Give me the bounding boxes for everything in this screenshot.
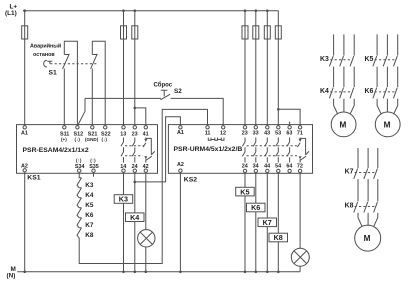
svg-text:M: M xyxy=(340,120,347,129)
svg-text:(↑): (↑) xyxy=(90,158,96,163)
svg-text:KS1: KS1 xyxy=(27,175,40,182)
wire lamp H1 to N rail xyxy=(145,247,147,272)
svg-text:72: 72 xyxy=(297,164,303,170)
junction xyxy=(134,9,137,12)
svg-text:K5: K5 xyxy=(85,202,94,209)
reset button S2 labels xyxy=(154,81,183,95)
terminal 63 xyxy=(289,123,291,126)
wire 34 down through K6 coil box xyxy=(255,173,257,272)
terminal 41 xyxy=(144,126,147,129)
svg-text:11: 11 xyxy=(205,130,211,136)
terminal 13 xyxy=(122,126,125,129)
wire 44 down through K7 coil box xyxy=(266,173,268,272)
NC contact S1 channel 1 xyxy=(63,54,70,69)
svg-text:54: 54 xyxy=(275,164,281,170)
svg-text:(+): (+) xyxy=(61,137,67,142)
svg-text:63: 63 xyxy=(286,131,292,137)
wire drop to module2 43 xyxy=(266,11,268,126)
wire S2 line xyxy=(85,97,161,99)
wire 24 down through K4 coil box xyxy=(134,172,136,271)
wire drop to module2 33 xyxy=(255,11,257,126)
mechanical link dashed xyxy=(50,63,97,65)
terminal A1 (U1) xyxy=(23,126,26,129)
node L+ (L1) label xyxy=(5,3,17,17)
fuse on 13 drop xyxy=(121,26,127,39)
emergency stop actuator xyxy=(44,60,53,67)
junction xyxy=(134,107,137,110)
indicator lamp H2 xyxy=(291,248,309,266)
terminal 72 xyxy=(298,169,301,172)
contactor coil K3 box xyxy=(114,195,133,204)
indicator lamp H1 xyxy=(138,230,155,247)
svg-text:K4: K4 xyxy=(130,213,139,222)
U2 signal contact 71-72 with arrows xyxy=(297,138,309,163)
e-stop loop S21-S22 xyxy=(92,41,105,125)
svg-text:23: 23 xyxy=(132,131,138,137)
feedback chain NC contact K5 xyxy=(77,198,82,208)
terminal S12 xyxy=(76,126,79,129)
svg-text:K3: K3 xyxy=(85,182,94,189)
svg-text:A1: A1 xyxy=(177,130,184,136)
terminal S22 xyxy=(104,126,107,129)
U2 internal contact 63-64 xyxy=(287,138,290,163)
contactor coil K5 box xyxy=(236,187,255,196)
U2 internal contact 23-24 xyxy=(242,138,245,163)
terminal 53 xyxy=(277,126,280,129)
svg-text:K4: K4 xyxy=(85,192,94,199)
relay module U1 PSR-ESAM4/2x1/1x2 box xyxy=(17,125,158,174)
junction on 24-wire xyxy=(134,181,137,184)
terminal 34 xyxy=(254,169,257,172)
wire left rail to A1 xyxy=(24,11,26,126)
feedback chain NC contact K7 xyxy=(77,218,82,228)
svg-text:44: 44 xyxy=(264,164,270,170)
terminal A2 (U1) xyxy=(23,169,26,172)
wire 72 down to lamp H2 xyxy=(299,173,301,249)
feedback chain NC contact K3 xyxy=(77,173,82,188)
svg-text:A2: A2 xyxy=(21,163,28,169)
fuse F1 left rail xyxy=(22,26,28,39)
U1 internal contact 23-24 xyxy=(132,138,135,163)
terminal 54 xyxy=(277,169,280,172)
terminal 24 xyxy=(133,169,136,172)
svg-text:(GND): (GND) xyxy=(85,137,99,142)
svg-text:14: 14 xyxy=(120,164,126,170)
terminal S11 xyxy=(63,126,66,129)
svg-text:(↓): (↓) xyxy=(102,137,108,142)
svg-text:K8: K8 xyxy=(274,233,283,242)
terminal A1 (U2) xyxy=(179,126,182,129)
fuse xyxy=(275,26,281,39)
svg-text:Аварийный: Аварийный xyxy=(30,43,61,50)
terminal 64 xyxy=(288,169,291,172)
svg-text:S1: S1 xyxy=(49,70,58,77)
contactor K7 power contacts xyxy=(345,148,378,227)
fuse xyxy=(264,26,270,39)
terminal 23 xyxy=(133,126,136,129)
svg-text:K7: K7 xyxy=(345,169,354,176)
push button S2 contact xyxy=(161,90,171,100)
svg-text:K7: K7 xyxy=(85,222,94,229)
terminal 11 xyxy=(206,126,209,129)
U2 mechanical link dashes xyxy=(247,146,299,156)
svg-text:K6: K6 xyxy=(365,88,374,95)
svg-text:K3: K3 xyxy=(320,56,329,63)
U1 internal contact 13-14 xyxy=(121,138,124,163)
wire A2(U1) to N rail xyxy=(24,172,26,272)
feedback chain NC contact K8 xyxy=(77,228,82,238)
U2 internal contact 53-54 xyxy=(276,138,279,163)
svg-text:K8: K8 xyxy=(85,232,94,239)
terminal A2 (U2) xyxy=(179,169,182,172)
wire S2 line left, slant into S12 xyxy=(78,98,85,125)
wire top supply bus xyxy=(23,10,278,12)
svg-text:K6: K6 xyxy=(85,212,94,219)
wire drop to 23 xyxy=(134,11,136,126)
svg-text:(L1): (L1) xyxy=(5,10,17,17)
feedback chain NC contact K6 xyxy=(77,208,82,218)
svg-text:33: 33 xyxy=(253,131,259,137)
fuse xyxy=(253,26,259,39)
U1 signal contact 41-42 with arrows xyxy=(143,138,155,163)
motor M3 xyxy=(355,225,381,251)
svg-text:K3: K3 xyxy=(119,195,128,204)
terminal S35 xyxy=(92,169,95,172)
terminal 14 xyxy=(122,169,125,172)
terminal 42 xyxy=(144,169,147,172)
wire 24(U2) down through K5 coil box xyxy=(244,173,246,272)
svg-text:A2: A2 xyxy=(177,162,184,168)
wire A2(U2) to N rail xyxy=(179,172,181,271)
U2 internal contact 33-34 xyxy=(253,138,256,163)
wire lamp H2 to N rail xyxy=(299,266,301,272)
svg-text:A1: A1 xyxy=(21,131,28,137)
motor M2 xyxy=(375,112,400,137)
contactor coil K4 box xyxy=(126,213,145,222)
wire drop to module2 23 xyxy=(244,11,246,126)
svg-text:S2: S2 xyxy=(174,88,182,95)
svg-text:M: M xyxy=(384,120,391,129)
wire terminal 11 to feedback chain return xyxy=(79,109,207,263)
svg-text:34: 34 xyxy=(253,164,259,170)
wire drop to module2 53 xyxy=(277,11,279,126)
rail junctions xyxy=(23,271,26,274)
svg-text:24: 24 xyxy=(242,164,248,170)
svg-text:M: M xyxy=(364,234,371,243)
contactor K3 power contacts xyxy=(320,34,354,114)
svg-text:K5: K5 xyxy=(365,56,374,63)
bridge link 11-12 xyxy=(208,138,224,141)
svg-text:(↓): (↓) xyxy=(75,137,81,142)
relay module U2 PSR-URM4/5x1/2x2/B box xyxy=(168,125,312,174)
svg-text:K8: K8 xyxy=(345,203,354,210)
svg-text:64: 64 xyxy=(286,164,292,170)
terminal 71 xyxy=(298,126,301,129)
stub under S35 xyxy=(93,172,95,176)
terminal 12 xyxy=(222,126,225,129)
svg-text:43: 43 xyxy=(264,131,270,137)
terminal 43 xyxy=(266,126,269,129)
node M (N) label xyxy=(7,266,16,280)
svg-text:13: 13 xyxy=(120,131,126,137)
svg-text:K4: K4 xyxy=(320,88,329,95)
contactor coil K7 box xyxy=(258,218,277,227)
svg-text:(N): (N) xyxy=(7,273,16,280)
svg-text:42: 42 xyxy=(143,164,149,170)
wire S2 to terminal 12 xyxy=(171,98,224,125)
svg-text:24: 24 xyxy=(132,164,138,170)
wire branch 53-line to terminal 71 xyxy=(278,109,300,125)
U1 mechanical link dashes xyxy=(125,146,144,156)
svg-text:K7: K7 xyxy=(263,218,272,227)
svg-text:Сброс: Сброс xyxy=(154,81,173,88)
terminal 44 xyxy=(266,169,269,172)
U2 internal contact 43-44 xyxy=(265,138,268,163)
wire branch 23-line to terminal 41 xyxy=(135,108,146,126)
wire drop to 13 xyxy=(123,11,125,126)
svg-text:23: 23 xyxy=(242,131,248,137)
contactor K5 power contacts xyxy=(365,34,398,114)
terminal 23 (U2) xyxy=(243,126,246,129)
svg-text:K5: K5 xyxy=(240,187,249,196)
wire 14 down through K3 coil box xyxy=(123,172,125,271)
svg-text:(↑): (↑) xyxy=(76,158,82,163)
terminal 33 xyxy=(254,126,257,129)
contactor coil K8 box xyxy=(269,233,288,242)
junction xyxy=(122,9,125,12)
NC contact S1 channel 2 xyxy=(91,54,98,69)
wire 42 down to lamp xyxy=(145,172,147,229)
svg-text:12: 12 xyxy=(220,130,226,136)
wire bottom N rail xyxy=(17,271,300,273)
wire module2 A1 feed from module1 terminal 24 xyxy=(135,117,181,182)
svg-text:KS2: KS2 xyxy=(184,176,197,183)
junction top-left xyxy=(23,9,26,12)
wire 54 down through K8 coil box xyxy=(277,173,279,272)
contactor coil K6 box xyxy=(247,203,266,212)
svg-text:71: 71 xyxy=(297,131,303,137)
svg-text:S34: S34 xyxy=(75,164,85,170)
svg-text:S35: S35 xyxy=(89,164,99,170)
terminal 24 (U2) xyxy=(243,169,246,172)
svg-text:K6: K6 xyxy=(251,203,260,212)
emergency stop S1 label xyxy=(30,43,61,77)
e-stop loop S11-S12 xyxy=(64,41,77,125)
svg-text:53: 53 xyxy=(275,131,281,137)
motor M1 xyxy=(331,112,356,137)
svg-text:PSR-URM4/5x1/2x2/B: PSR-URM4/5x1/2x2/B xyxy=(174,146,243,153)
svg-text:останов: останов xyxy=(33,52,55,58)
svg-text:PSR-ESAM4/2x1/1x2: PSR-ESAM4/2x1/1x2 xyxy=(23,147,89,154)
terminal S21 xyxy=(91,126,94,129)
fuse on 23 drop xyxy=(132,26,138,39)
svg-text:41: 41 xyxy=(143,131,149,137)
terminal S34 xyxy=(78,169,81,172)
feedback chain NC contact K4 xyxy=(77,188,82,198)
fuse xyxy=(242,26,248,39)
